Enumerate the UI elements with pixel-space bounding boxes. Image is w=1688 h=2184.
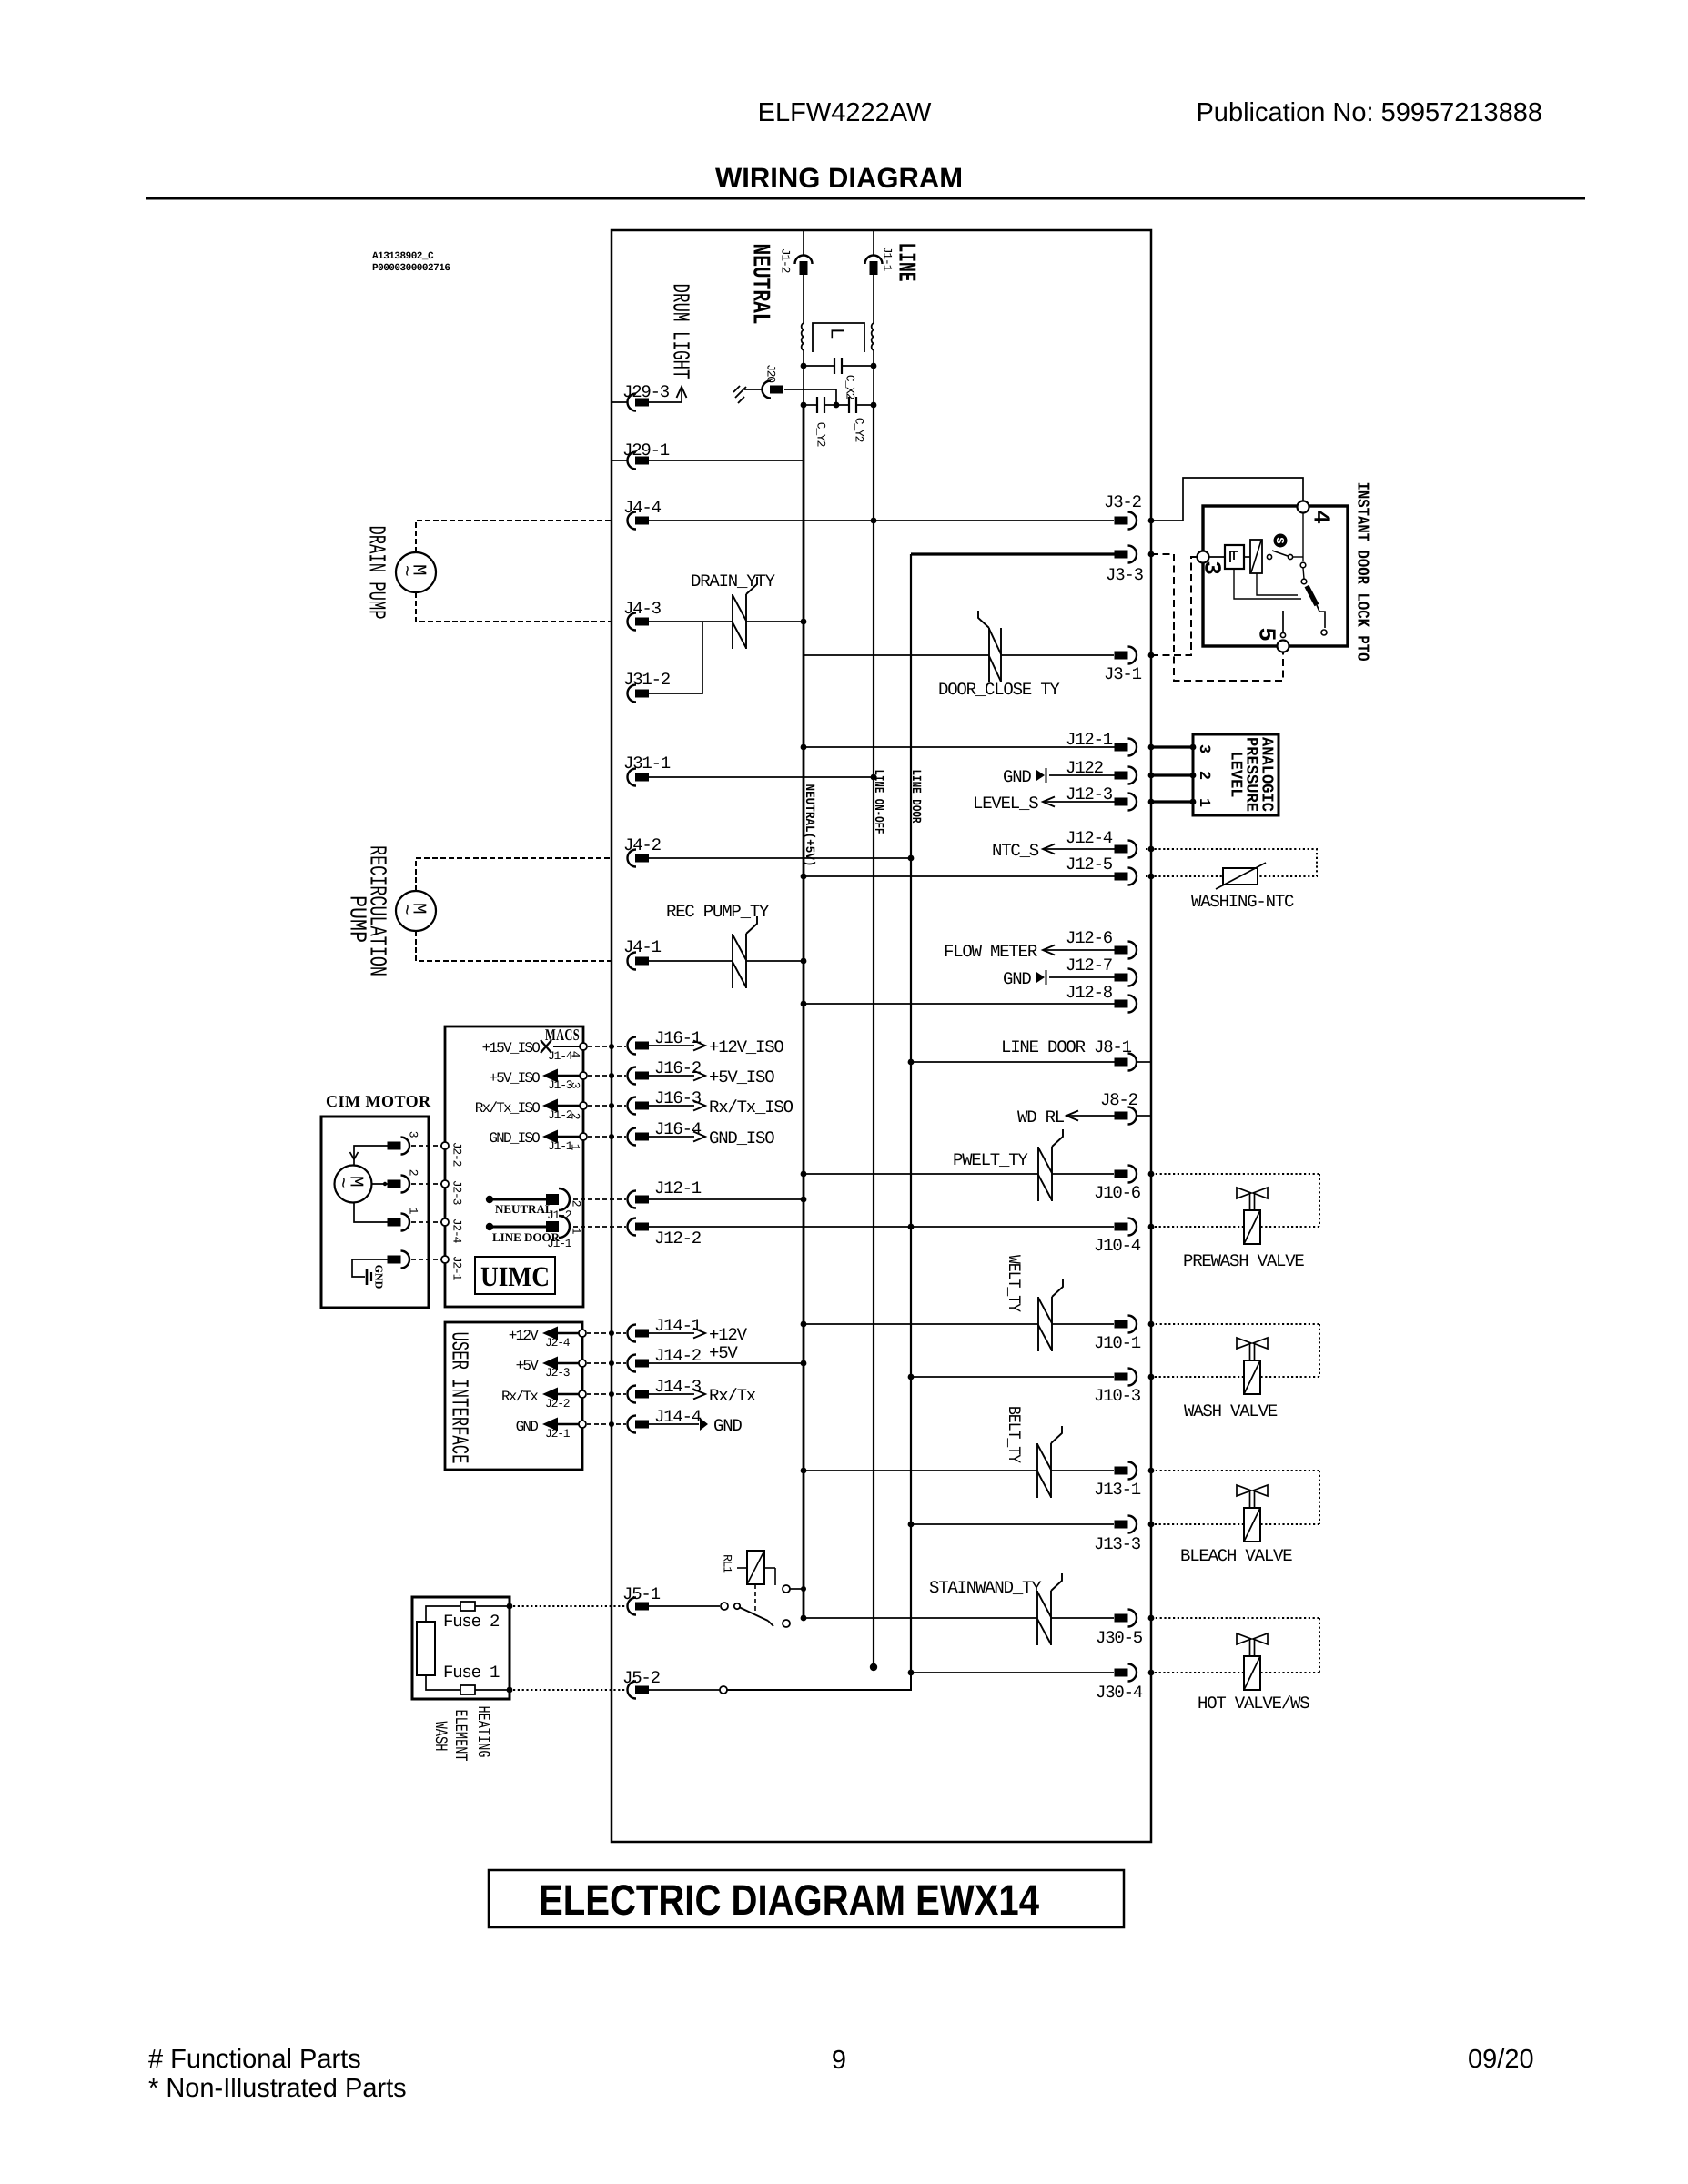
svg-text:J12-3: J12-3 — [1066, 784, 1113, 804]
wire drain pump to J4-3 — [416, 592, 612, 622]
connector J12-1 right — [804, 746, 1116, 748]
svg-text:J10-6: J10-6 — [1094, 1183, 1141, 1203]
drain pump motor — [396, 552, 436, 592]
svg-text:NEUTRAL: NEUTRAL — [495, 1202, 553, 1216]
svg-text:J3-3: J3-3 — [1106, 565, 1144, 585]
UIMC J2 pin circles — [441, 1142, 449, 1149]
connector J8-2 — [1066, 1115, 1116, 1117]
USER INTERFACE box — [445, 1322, 582, 1470]
wire J14-2 +5V to neutral bus — [649, 1362, 804, 1364]
inductor L right winding — [872, 323, 874, 330]
UIMC inner label box — [475, 1257, 555, 1294]
motor pin 3 wiring — [354, 1146, 393, 1166]
connector J31-2 — [628, 685, 637, 703]
svg-text:BLEACH VALVE: BLEACH VALVE — [1180, 1546, 1292, 1566]
connector J3-2 — [1115, 517, 1128, 525]
svg-text:Fuse 2: Fuse 2 — [443, 1612, 500, 1632]
pressure pin 3 stub — [1151, 745, 1193, 748]
PREWASH VALVE dashed box — [1151, 1173, 1319, 1175]
svg-text:9: 9 — [832, 2046, 846, 2075]
svg-text:J10-3: J10-3 — [1094, 1386, 1141, 1406]
svg-text:UIMC: UIMC — [480, 1260, 550, 1292]
svg-text:J13-1: J13-1 — [1094, 1480, 1141, 1500]
connector J14-4 — [628, 1416, 637, 1433]
svg-text:J12-6: J12-6 — [1066, 928, 1113, 948]
svg-text:GND: GND — [713, 1416, 742, 1436]
svg-text:FLOW METER: FLOW METER — [944, 942, 1037, 962]
connector J20 — [763, 381, 772, 399]
svg-text:ELEMENT: ELEMENT — [450, 1710, 470, 1762]
svg-text:LEVEL: LEVEL — [1227, 752, 1245, 798]
wire WELT row — [804, 1323, 1038, 1325]
svg-text:J13-3: J13-3 — [1094, 1534, 1141, 1554]
svg-text:Rx/Tx_ISO: Rx/Tx_ISO — [475, 1100, 540, 1117]
svg-text:WELT_TY: WELT_TY — [1004, 1255, 1024, 1313]
svg-text:DRAIN PUMP: DRAIN PUMP — [363, 526, 390, 620]
svg-text:INSTANT DOOR LOCK PTO: INSTANT DOOR LOCK PTO — [1353, 482, 1371, 662]
svg-text:NEUTRAL(+5V): NEUTRAL(+5V) — [802, 784, 816, 867]
svg-text:3: 3 — [1195, 744, 1212, 753]
svg-text:CIM MOTOR: CIM MOTOR — [326, 1092, 431, 1110]
dotted fuse wires to J5 — [513, 1605, 626, 1607]
connector J4-2 — [628, 850, 637, 867]
thick stub J3-3 — [911, 552, 1115, 555]
connector J13-3 — [911, 1523, 1114, 1525]
CIM MOTOR box — [321, 1117, 429, 1308]
WASH VALVE dashed box — [1151, 1323, 1319, 1325]
wire BELT row — [804, 1470, 1037, 1471]
svg-text:GND: GND — [1003, 767, 1031, 787]
relay contact to neutral bus — [783, 1585, 790, 1592]
svg-text:J5-1: J5-1 — [622, 1584, 661, 1604]
svg-text:Rx/Tx: Rx/Tx — [501, 1389, 538, 1405]
connector J1-2 (NEUTRAL input) — [803, 230, 804, 256]
connector J14-2 — [628, 1355, 637, 1372]
connector J5-1 — [628, 1598, 637, 1615]
connector J16-4 — [628, 1128, 637, 1146]
triac REC PUMP_TY — [732, 934, 733, 988]
connector J8-1 — [911, 1061, 1116, 1063]
inductor L left winding — [802, 323, 804, 330]
connector J29-1 — [612, 460, 628, 461]
recirculation pump motor — [396, 891, 436, 931]
door lock heater element — [1307, 586, 1317, 605]
triac DOOR_CLOSE TY — [988, 628, 990, 682]
svg-text:J10-1: J10-1 — [1094, 1333, 1141, 1353]
svg-text:J12-2: J12-2 — [654, 1228, 702, 1249]
dashed UI rows to J14 — [587, 1332, 626, 1334]
svg-text:Rx/Tx: Rx/Tx — [709, 1386, 756, 1406]
svg-text:J31-2: J31-2 — [623, 670, 671, 690]
svg-text:* Non-Illustrated Parts: * Non-Illustrated Parts — [148, 2074, 407, 2103]
svg-text:ELFW4222AW: ELFW4222AW — [758, 98, 932, 127]
svg-text:A13138902_C: A13138902_C — [372, 251, 434, 262]
wire drain pump to J4-4 — [416, 521, 612, 552]
connector J4-4 — [628, 512, 637, 530]
connector J12-8 — [804, 1003, 1116, 1005]
svg-text:GND: GND — [1003, 969, 1031, 989]
svg-text:C_Y2: C_Y2 — [814, 422, 827, 447]
svg-text:J10-4: J10-4 — [1094, 1236, 1141, 1256]
svg-text:J4-4: J4-4 — [623, 498, 662, 518]
wire to C_X2 row — [803, 350, 804, 366]
dotted wire J12-5 to washing NTC — [1148, 874, 1155, 880]
svg-text:Rx/Tx_ISO: Rx/Tx_ISO — [709, 1097, 793, 1117]
svg-text:BELT_TY: BELT_TY — [1004, 1406, 1024, 1464]
capacitor C_X2 — [804, 365, 834, 367]
door lock PTC element — [1209, 556, 1225, 558]
svg-text:09/20: 09/20 — [1468, 2045, 1534, 2074]
wire J31-2 branch to J4-3 row — [649, 622, 702, 693]
LINE DOOR bus — [910, 554, 912, 1673]
svg-text:5: 5 — [1253, 627, 1280, 642]
wire J20 to C_Y2 midpoint — [784, 389, 836, 390]
svg-text:Publication No: 59957213888: Publication No: 59957213888 — [1196, 98, 1542, 127]
connector J31-1 — [628, 769, 637, 786]
svg-text:J2-1: J2-1 — [450, 1256, 463, 1281]
svg-text:WD RL: WD RL — [1017, 1107, 1065, 1127]
svg-text:~: ~ — [330, 1177, 351, 1188]
washing NTC resistor — [1223, 868, 1258, 885]
connector J10-4 — [1115, 1223, 1128, 1231]
connector J14-3 — [628, 1386, 637, 1403]
door lock S indicator — [1274, 534, 1288, 548]
svg-text:J12-4: J12-4 — [1066, 828, 1113, 848]
connector J16-3 — [628, 1097, 637, 1115]
svg-text:3: 3 — [568, 1082, 581, 1088]
wire J3-2 to door lock pin 4 — [1151, 478, 1303, 521]
svg-text:J2-4: J2-4 — [450, 1218, 463, 1244]
wire J31-1 to line on-off bus — [649, 776, 874, 778]
switch arm J5-1 — [721, 1603, 728, 1610]
svg-text:NEUTRAL: NEUTRAL — [745, 244, 773, 325]
connector J10-6 — [1052, 1173, 1114, 1175]
connector J29-3 — [612, 401, 628, 403]
connector J30-4 — [911, 1672, 1114, 1673]
svg-text:3: 3 — [1198, 561, 1226, 575]
svg-text:~: ~ — [394, 565, 415, 576]
svg-text:GND: GND — [373, 1265, 386, 1289]
relay dashed actuation link — [754, 1584, 756, 1612]
connector J1-1 (LINE input) — [873, 230, 874, 256]
motor connector 2 — [388, 1180, 401, 1188]
wire triac to neutral bus — [746, 960, 804, 962]
svg-text:LINE DOOR J8-1: LINE DOOR J8-1 — [1001, 1037, 1132, 1057]
bleach valve symbol — [1237, 1485, 1268, 1496]
svg-text:J3-2: J3-2 — [1104, 492, 1142, 512]
wire recirc pump to J4-2 — [416, 858, 612, 891]
wire DOOR_CLOSE row — [804, 654, 989, 656]
svg-text:3: 3 — [406, 1131, 419, 1137]
svg-text:J20: J20 — [763, 364, 777, 382]
svg-text:PREWASH VALVE: PREWASH VALVE — [1183, 1251, 1304, 1271]
svg-text:J30-5: J30-5 — [1096, 1628, 1143, 1648]
svg-text:PWELT_TY: PWELT_TY — [953, 1150, 1028, 1170]
svg-text:J2-3: J2-3 — [450, 1180, 463, 1205]
connector J10-1 — [1052, 1323, 1114, 1325]
pressure sensor box ANALOGIC PRESSURE LEVEL — [1193, 734, 1279, 815]
svg-text:HOT VALVE/WS: HOT VALVE/WS — [1198, 1694, 1309, 1714]
svg-text:GND_ISO: GND_ISO — [709, 1128, 774, 1148]
hot valve symbol — [1237, 1633, 1268, 1644]
triac PWELT_TY — [1037, 1147, 1039, 1201]
door lock pin5 stub — [1282, 611, 1284, 632]
wire J4-1 to triac — [649, 960, 733, 962]
connector J30-5 — [1051, 1617, 1114, 1619]
svg-text:J1-1: J1-1 — [880, 247, 894, 272]
connector J5-2 — [628, 1682, 637, 1699]
wire J1-1 to inductor — [873, 275, 874, 323]
door lock pin 3 — [1198, 551, 1209, 563]
motor connector 3 — [388, 1142, 401, 1150]
motor connector gnd — [388, 1256, 401, 1264]
svg-text:1: 1 — [406, 1208, 419, 1215]
connector J14-1 — [628, 1325, 637, 1342]
svg-text:L: L — [824, 328, 845, 339]
door lock box INSTANT DOOR LOCK PTO — [1203, 506, 1348, 646]
door lock pin4 internal line — [1302, 513, 1304, 561]
svg-text:2: 2 — [1195, 771, 1212, 780]
fuse 1 bottom — [426, 1675, 460, 1690]
UIMC NEUTRAL output J1-2 — [486, 1196, 493, 1203]
svg-text:J2-4: J2-4 — [545, 1336, 571, 1350]
earth ground at J20 — [735, 387, 746, 398]
svg-text:LEVEL_S: LEVEL_S — [973, 794, 1038, 814]
prewash valve symbol — [1237, 1188, 1268, 1198]
svg-text:# Functional Parts: # Functional Parts — [148, 2045, 361, 2074]
connector J12-3 — [1043, 801, 1116, 803]
svg-text:2: 2 — [568, 1113, 581, 1119]
connector J10-3 — [911, 1376, 1114, 1378]
title underline — [146, 197, 1585, 200]
connector J4-1 — [628, 953, 637, 970]
door lock pin 4 — [1298, 501, 1309, 513]
connector J12-2 left — [628, 1218, 637, 1236]
svg-text:J12-8: J12-8 — [1066, 983, 1113, 1003]
svg-text:J4-2: J4-2 — [623, 835, 662, 855]
svg-text:J1-2: J1-2 — [778, 248, 792, 273]
svg-text:LINE DOOR: LINE DOOR — [908, 770, 923, 824]
svg-text:NTC_S: NTC_S — [992, 841, 1039, 861]
wire J4-3 to triac — [649, 621, 733, 622]
svg-text:USER INTERFACE: USER INTERFACE — [446, 1332, 473, 1464]
svg-text:HEATING: HEATING — [473, 1706, 493, 1758]
connector J16-1 — [628, 1037, 637, 1055]
door lock switch contacts — [1267, 554, 1271, 559]
dotted wire J12-4 to washing NTC — [1148, 846, 1155, 853]
svg-text:+5V: +5V — [709, 1343, 738, 1363]
wire J29-1 to neutral bus — [649, 460, 804, 461]
svg-text:1: 1 — [569, 1228, 582, 1235]
triac BELT_TY — [1036, 1443, 1038, 1498]
connector J16-2 — [628, 1067, 637, 1085]
UIMC LINE DOOR output J1-1 — [486, 1223, 493, 1230]
triac WELT_TY — [1037, 1297, 1039, 1351]
svg-text:J12-7: J12-7 — [1066, 955, 1112, 976]
wire recirc pump to J4-1 — [416, 931, 612, 961]
connector J13-1 — [1051, 1470, 1114, 1471]
motor M circle — [335, 1166, 372, 1203]
inductor core bracket — [813, 323, 864, 352]
svg-text:+5V: +5V — [516, 1358, 540, 1374]
svg-text:J12-5: J12-5 — [1066, 854, 1113, 875]
wire triac to neutral bus — [746, 621, 804, 622]
svg-text:J2-2: J2-2 — [545, 1397, 570, 1410]
wire J1-2 to inductor — [803, 275, 804, 323]
svg-text:2: 2 — [406, 1169, 419, 1176]
svg-text:+5V_ISO: +5V_ISO — [709, 1067, 774, 1087]
svg-text:WASH VALVE: WASH VALVE — [1184, 1401, 1278, 1421]
door lock thermal actuator — [1244, 556, 1250, 558]
svg-text:J12-1: J12-1 — [654, 1178, 702, 1198]
svg-text:C_X2: C_X2 — [843, 375, 856, 399]
triac STAINWAND_TY — [1036, 1591, 1038, 1645]
connector J12-7 — [1049, 976, 1116, 978]
wire J12-2 to J10-4 — [649, 1226, 1114, 1228]
wire J29-3 arrow to drum light — [649, 389, 682, 402]
svg-text:WASH: WASH — [430, 1722, 450, 1752]
wash valve symbol — [1237, 1338, 1268, 1349]
wire STAINWAND row — [804, 1617, 1037, 1619]
connector J4-3 — [628, 613, 637, 631]
svg-text:GND: GND — [516, 1419, 539, 1435]
svg-text:J1-1: J1-1 — [547, 1237, 572, 1250]
connector J122 — [1049, 774, 1116, 776]
svg-text:J4-3: J4-3 — [623, 599, 662, 619]
svg-text:J29-3: J29-3 — [622, 382, 670, 402]
relay RL1 — [747, 1551, 764, 1584]
triac DRAIN_YTY — [732, 594, 733, 649]
svg-text:WASHING-NTC: WASHING-NTC — [1191, 892, 1294, 912]
svg-text:J2-2: J2-2 — [450, 1142, 463, 1167]
heating element box — [412, 1597, 510, 1699]
svg-text:LINE: LINE — [891, 243, 918, 282]
connector J12-1 left — [628, 1191, 637, 1208]
dashed to J12-2 — [573, 1226, 626, 1228]
fuse 2 top — [426, 1606, 460, 1622]
svg-text:J2-1: J2-1 — [545, 1427, 571, 1441]
dashed wire J3-3 to door lock pin 5 — [1151, 554, 1283, 681]
svg-text:STAINWAND_TY: STAINWAND_TY — [929, 1578, 1042, 1598]
svg-text:Fuse 1: Fuse 1 — [443, 1663, 500, 1683]
connector J3-1 — [1115, 652, 1128, 660]
svg-text:~: ~ — [394, 904, 415, 915]
main control board box — [612, 230, 1151, 1842]
svg-text:P0000300002716: P0000300002716 — [372, 263, 450, 274]
svg-text:J3-1: J3-1 — [1104, 664, 1142, 684]
svg-text:S: S — [1273, 537, 1286, 543]
svg-text:1: 1 — [1195, 798, 1212, 807]
connector J3-3 — [1115, 551, 1128, 559]
door lock internal links — [1234, 569, 1301, 599]
svg-text:4: 4 — [1308, 510, 1335, 524]
svg-text:2: 2 — [569, 1200, 582, 1207]
svg-text:DRUM LIGHT: DRUM LIGHT — [667, 284, 694, 379]
pressure pin 2 stub — [1151, 773, 1193, 776]
svg-text:J31-1: J31-1 — [623, 753, 671, 773]
wire PWELT row — [804, 1173, 1038, 1175]
connector J12-5 — [804, 875, 1116, 877]
BLEACH VALVE dashed box — [1151, 1470, 1319, 1471]
door lock pin 5 — [1278, 641, 1289, 652]
wire J12-1 to neutral bus — [649, 1198, 804, 1200]
heating resistor — [417, 1622, 435, 1675]
dashed wire J3-1 to door lock pin 3 — [1151, 557, 1197, 655]
svg-text:J4-1: J4-1 — [623, 937, 662, 957]
svg-text:RL1: RL1 — [720, 1554, 733, 1573]
svg-text:DRAIN_YTY: DRAIN_YTY — [691, 571, 776, 591]
svg-text:DOOR_CLOSE TY: DOOR_CLOSE TY — [938, 680, 1060, 700]
svg-text:REC PUMP_TY: REC PUMP_TY — [666, 902, 770, 922]
pressure pin 1 stub — [1151, 800, 1193, 803]
HOT VALVE dashed box — [1151, 1617, 1319, 1619]
wire triac to J3-1 — [1001, 654, 1114, 656]
capacitor C_Y2 right — [856, 404, 874, 406]
motor ground symbol — [352, 1259, 388, 1277]
dashed to J12-1 — [573, 1198, 626, 1200]
svg-text:C_Y2: C_Y2 — [852, 418, 865, 442]
ELECTRIC DIAGRAM box — [489, 1870, 1124, 1927]
UIMC box — [445, 1026, 583, 1307]
motor pin 2 wiring — [372, 1183, 393, 1185]
svg-text:J2-3: J2-3 — [545, 1366, 570, 1380]
wire NEUTRAL to C_Y2 row — [803, 366, 804, 405]
dashed ISO rows to J16 connectors — [588, 1046, 626, 1047]
wire J4-2 to line door bus — [649, 857, 911, 859]
svg-text:+12V: +12V — [709, 1325, 748, 1345]
svg-text:+12V: +12V — [509, 1328, 539, 1344]
svg-text:+15V_ISO: +15V_ISO — [482, 1040, 541, 1057]
svg-text:J122: J122 — [1066, 758, 1104, 778]
capacitor C_Y2 left — [804, 404, 817, 406]
wire J4-4 to J3-2 — [649, 520, 1114, 521]
dashed motor rows to UIMC J2 pins — [411, 1145, 441, 1147]
svg-text:+12V_ISO: +12V_ISO — [709, 1037, 783, 1057]
svg-text:J30-4: J30-4 — [1096, 1683, 1143, 1703]
svg-text:J12-1: J12-1 — [1066, 730, 1113, 750]
motor connector 1 — [388, 1218, 401, 1227]
LINE ON-OFF bus — [873, 405, 874, 1667]
connector J12-4 — [1043, 848, 1116, 850]
svg-text:GND_ISO: GND_ISO — [489, 1130, 540, 1147]
svg-text:PUMP: PUMP — [344, 895, 371, 943]
connector J12-6 — [1043, 949, 1116, 951]
motor pin 1 wiring — [354, 1202, 393, 1222]
svg-text:+5V_ISO: +5V_ISO — [489, 1070, 540, 1087]
svg-text:ELECTRIC DIAGRAM EWX14: ELECTRIC DIAGRAM EWX14 — [539, 1876, 1039, 1924]
NEUTRAL(+5V) bus — [803, 405, 805, 1618]
svg-text:WIRING DIAGRAM: WIRING DIAGRAM — [715, 162, 963, 194]
svg-text:J29-1: J29-1 — [622, 440, 670, 460]
svg-text:J5-2: J5-2 — [622, 1668, 661, 1688]
wire J5-2 to J30-4 row — [727, 1673, 911, 1690]
